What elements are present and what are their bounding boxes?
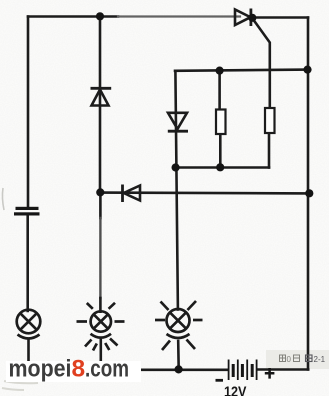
battery GB short plates — [233, 364, 252, 377]
wire middle vertical faded scan segment — [99, 218, 101, 298]
wire left vertical from top corner down to capacitor C1 — [27, 17, 30, 208]
wire middle vertical through zener VD1 down to node at y193 — [99, 17, 102, 193]
svg-text:2-1: 2-1 — [314, 355, 326, 364]
wire right vertical bus — [307, 18, 310, 370]
lamp EL1 — [17, 310, 41, 339]
wire top bus left segment — [28, 15, 118, 18]
junction node box bottom left — [172, 163, 180, 171]
resistor R1 — [216, 110, 226, 135]
junction node lamp EL3 / bottom bus — [175, 365, 183, 373]
junction node box bottom / R1 — [216, 163, 224, 171]
watermark background panel — [6, 361, 141, 382]
wire regulator box bottom edge — [176, 166, 270, 169]
wire resistor R2 branch lower — [268, 134, 271, 168]
junction node top bus / zener branch — [96, 12, 104, 20]
svg-text:mopei: mopei — [9, 356, 72, 383]
wire resistor R2 branch upper with slant to diode VD2 — [253, 19, 270, 109]
battery plus label — [265, 368, 275, 379]
wire bottom bus right of battery — [258, 368, 309, 371]
junction node y193 / right bus — [305, 189, 313, 197]
wire regulator box top edge — [175, 70, 308, 71]
wire middle vertical below node y193 — [99, 193, 102, 219]
diode VD2 at top bus — [235, 9, 251, 27]
battery GB long plates — [229, 360, 257, 381]
wire horizontal at y193 from node to right bus — [100, 191, 310, 194]
svg-text:.com: .com — [85, 356, 129, 383]
svg-text:0: 0 — [287, 355, 292, 364]
lamp EL3 flasher — [155, 301, 203, 350]
capacitor C1 plate top — [16, 207, 39, 210]
junction node box top / right bus — [303, 66, 311, 74]
diode VD4 on y193 wire — [123, 185, 141, 203]
page label 第0页 — [280, 355, 300, 362]
wire top bus middle faded segment — [118, 15, 240, 17]
wire top bus right segment after diode VD2 — [252, 16, 308, 19]
svg-text:8: 8 — [72, 356, 86, 383]
junction node diode VD2 cathode — [248, 14, 256, 22]
svg-text:12V: 12V — [224, 385, 247, 396]
wire regulator box left edge down through diode VD3 to lamp EL3 — [175, 71, 178, 310]
junction node y193 left — [96, 188, 104, 196]
wire lamp EL1 bottom stem — [27, 340, 30, 370]
diode VD3 inside regulator box — [168, 113, 188, 131]
junction node box top / R1 — [216, 67, 224, 75]
wire resistor R1 branch lower — [219, 134, 222, 168]
capacitor C1 plate bottom — [14, 212, 40, 215]
figure label 图2-1 — [306, 355, 313, 362]
wire lamp EL2 bottom stem — [100, 340, 103, 369]
wire bottom bus left of battery — [27, 368, 228, 371]
wire middle vertical into lamp EL2 — [99, 298, 102, 312]
battery minus label — [216, 379, 224, 382]
zener diode VD1 — [91, 88, 112, 105]
lamp EL2 flasher — [77, 303, 125, 351]
wire resistor R1 branch upper — [218, 71, 221, 110]
resistor R2 — [265, 108, 275, 133]
wire lamp EL3 bottom stem — [177, 341, 180, 370]
wire left vertical from capacitor C1 down to lamp EL1 — [26, 215, 29, 311]
